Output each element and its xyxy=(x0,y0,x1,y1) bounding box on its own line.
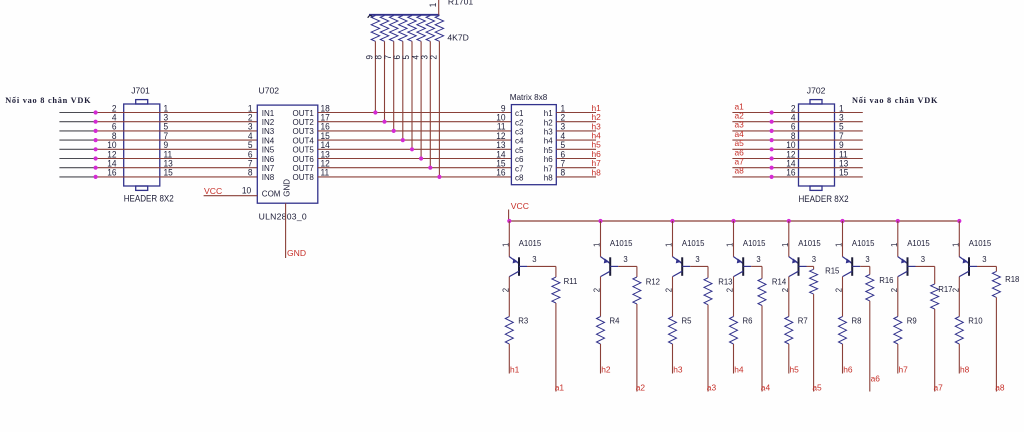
wire VCC rail xyxy=(509,220,960,222)
svg-text:h2: h2 xyxy=(601,364,611,374)
svg-text:3: 3 xyxy=(865,255,870,264)
svg-text:A1015: A1015 xyxy=(798,239,821,248)
svg-text:OUT2: OUT2 xyxy=(293,118,315,127)
transistor Q2 A1015 symbol xyxy=(601,257,619,277)
wire emitter Q5 xyxy=(788,221,790,257)
svg-text:1: 1 xyxy=(780,242,789,247)
resistor R5 xyxy=(669,317,677,345)
svg-text:1: 1 xyxy=(501,242,510,247)
wire U702 OUT1 to Matrix xyxy=(318,112,512,114)
svg-text:a8: a8 xyxy=(735,166,745,176)
wire base Q2 to R12 xyxy=(618,265,637,267)
svg-text:J702: J702 xyxy=(807,86,826,96)
resistor R14 xyxy=(758,279,766,306)
svg-text:1: 1 xyxy=(889,242,898,247)
resistor R7 xyxy=(785,317,793,345)
svg-text:8: 8 xyxy=(561,167,566,178)
svg-text:A1015: A1015 xyxy=(682,239,705,248)
wire R12 down to a2 xyxy=(636,304,638,392)
connector J702 body xyxy=(799,100,835,191)
svg-text:1: 1 xyxy=(427,2,438,7)
svg-text:4K7D: 4K7D xyxy=(447,32,469,42)
wire emitter Q8 xyxy=(958,221,960,257)
wire Matrix h6 out xyxy=(556,158,596,160)
junction dot R1701 pin 2 on OUT row xyxy=(437,175,441,179)
svg-text:c4: c4 xyxy=(515,137,524,146)
svg-text:R14: R14 xyxy=(772,277,787,286)
wire a5 to J702 pin10 xyxy=(732,148,862,150)
svg-text:R7: R7 xyxy=(798,316,808,325)
wire emitter Q1 xyxy=(508,221,510,257)
wire R14 down to a4 xyxy=(761,306,763,392)
wire base Q6 to R16 xyxy=(860,265,870,267)
svg-text:VCC: VCC xyxy=(204,186,222,196)
wire collector Q5 to R7 xyxy=(788,277,790,317)
svg-text:2: 2 xyxy=(428,55,439,60)
wire a8 to J702 pin16 xyxy=(732,176,862,178)
svg-text:J701: J701 xyxy=(131,86,150,96)
wire R13 down to a3 xyxy=(707,305,709,392)
wire J701 row 7 (input stub) xyxy=(59,167,95,169)
svg-text:OUT4: OUT4 xyxy=(293,136,315,145)
wire emitter Q4 xyxy=(733,221,735,257)
svg-text:c2: c2 xyxy=(515,118,524,127)
resistor R4 xyxy=(597,317,605,345)
junction dot rail cell 2 xyxy=(598,219,602,223)
wire a6 to J702 pin12 xyxy=(732,158,862,160)
junction dot rail cell 7 xyxy=(896,219,900,223)
svg-text:c8: c8 xyxy=(515,174,524,183)
svg-text:c7: c7 xyxy=(515,164,524,173)
svg-text:3: 3 xyxy=(812,255,817,264)
junction dot rail cell 5 xyxy=(787,219,791,223)
resistor R1701 element 7 xyxy=(390,16,398,42)
svg-text:OUT1: OUT1 xyxy=(293,109,315,118)
svg-text:8: 8 xyxy=(248,167,253,178)
resistor R1701 element 8 xyxy=(380,16,388,42)
wire J701 pin10 to U702 pin5 xyxy=(96,148,258,150)
svg-text:h1: h1 xyxy=(510,364,520,374)
wire Matrix h7 out xyxy=(556,167,596,169)
wire R1701 pin 4 down to OUT row 6 xyxy=(420,41,422,158)
wire J701 row 8 (input stub) xyxy=(59,176,95,178)
svg-text:16: 16 xyxy=(786,167,795,178)
junction dot J702 row 8 xyxy=(770,175,774,179)
power net VCC (transistor rail) xyxy=(508,210,510,222)
op-amp driver U702 body xyxy=(257,105,318,203)
wire J701 row 1 (input stub) xyxy=(59,112,95,114)
svg-text:R10: R10 xyxy=(968,316,983,325)
wire R8 down to h6 xyxy=(842,344,844,374)
wire Matrix h3 out xyxy=(556,130,596,132)
wire R16 down to a6 xyxy=(869,301,871,392)
resistor R1701 element 4 xyxy=(417,16,425,42)
transistor Q1 A1015 symbol xyxy=(509,257,527,277)
svg-text:R6: R6 xyxy=(743,316,753,325)
svg-text:Nối vao 8 chân VDK: Nối vao 8 chân VDK xyxy=(852,96,938,105)
svg-text:R9: R9 xyxy=(907,316,917,325)
svg-text:R11: R11 xyxy=(564,277,578,286)
junction dot R1701 pin 8 on OUT row xyxy=(382,120,386,124)
junction dot J702 row 4 xyxy=(770,138,774,142)
wire collector Q4 to R6 xyxy=(733,277,735,317)
transistor Q3 A1015 symbol xyxy=(673,257,691,277)
resistor R12 xyxy=(633,277,641,304)
svg-text:a4: a4 xyxy=(761,383,771,393)
wire base Q7 to R17 xyxy=(916,265,935,267)
wire base Q5 to R15 xyxy=(807,265,814,267)
wire Matrix h2 out xyxy=(556,121,596,123)
junction dot J701 row 5 xyxy=(94,147,98,151)
svg-text:1: 1 xyxy=(834,242,843,247)
transistor Q4 A1015 symbol xyxy=(734,257,752,277)
svg-text:R3: R3 xyxy=(518,316,528,325)
junction dot J702 row 6 xyxy=(770,156,774,160)
wire R11 down to a1 xyxy=(555,303,557,392)
wire J701 pin14 to U702 pin7 xyxy=(96,167,258,169)
wire collector Q1 to R3 xyxy=(508,277,510,317)
svg-text:h5: h5 xyxy=(790,364,800,374)
wire R9 down to h7 xyxy=(897,344,899,374)
resistor R13 xyxy=(704,278,712,305)
connector J701 body xyxy=(124,100,160,191)
svg-text:h3: h3 xyxy=(673,364,683,374)
wire J701 pin6 to U702 pin3 xyxy=(96,130,258,132)
svg-text:10: 10 xyxy=(242,185,251,196)
svg-text:h7: h7 xyxy=(899,364,909,374)
svg-text:R16: R16 xyxy=(879,276,894,285)
svg-text:IN5: IN5 xyxy=(262,146,275,155)
wire R7 down to h5 xyxy=(788,344,790,374)
wire U702 OUT7 to Matrix xyxy=(318,167,512,169)
svg-text:ULN2803_0: ULN2803_0 xyxy=(259,212,307,222)
svg-text:GND: GND xyxy=(287,248,306,258)
resistor R17 xyxy=(931,284,939,309)
svg-text:Nối vao 8 chân VDK: Nối vao 8 chân VDK xyxy=(5,96,91,105)
transistor Q5 A1015 symbol xyxy=(789,257,807,277)
junction dot J701 row 1 xyxy=(94,110,98,114)
wire R10 down to h8 xyxy=(958,344,960,374)
resistor R1701 element 6 xyxy=(399,16,407,42)
svg-text:3: 3 xyxy=(921,255,926,264)
wire J701 pin12 to U702 pin6 xyxy=(96,158,258,160)
svg-text:HEADER 8X2: HEADER 8X2 xyxy=(124,193,174,203)
wire J701 pin2 to U702 pin1 xyxy=(96,112,258,114)
svg-text:IN8: IN8 xyxy=(262,173,275,182)
wire emitter Q7 xyxy=(897,221,899,257)
resistor R1701 element 5 xyxy=(408,16,416,42)
wire base Q3 to R13 xyxy=(690,265,708,267)
wire J701 pin16 to U702 pin8 xyxy=(96,176,258,178)
wire Matrix h1 out xyxy=(556,112,596,114)
svg-text:IN7: IN7 xyxy=(262,164,275,173)
resistor pack R1701 common bar xyxy=(369,14,439,16)
svg-text:3: 3 xyxy=(695,255,700,264)
resistor R15 xyxy=(810,269,818,294)
resistor R18 xyxy=(992,271,1000,297)
svg-text:R5: R5 xyxy=(682,316,692,325)
wire base Q8 to R18 xyxy=(977,265,996,267)
resistor R6 xyxy=(730,317,738,345)
svg-text:3: 3 xyxy=(982,255,987,264)
svg-text:R18: R18 xyxy=(1005,275,1020,284)
wire emitter Q6 xyxy=(842,221,844,257)
svg-text:1: 1 xyxy=(951,242,960,247)
junction dot J702 row 2 xyxy=(770,120,774,124)
svg-text:11: 11 xyxy=(321,167,330,178)
LED matrix U-Matrix body xyxy=(511,105,556,185)
svg-text:h1: h1 xyxy=(544,109,553,118)
svg-text:15: 15 xyxy=(839,167,848,178)
junction dot R1701 pin 3 on OUT row xyxy=(428,166,432,170)
junction dot R1701 pin 6 on OUT row xyxy=(401,138,405,142)
svg-text:c3: c3 xyxy=(515,128,524,137)
svg-text:a5: a5 xyxy=(812,383,822,393)
svg-text:h6: h6 xyxy=(544,155,553,164)
wire collector Q8 to R10 xyxy=(958,277,960,317)
wire collector Q2 to R4 xyxy=(600,277,602,317)
svg-text:R15: R15 xyxy=(825,266,840,275)
svg-text:h4: h4 xyxy=(544,137,553,146)
junction dot rail cell 8 xyxy=(957,219,961,223)
svg-text:R8: R8 xyxy=(852,316,862,325)
svg-text:U702: U702 xyxy=(259,86,280,96)
svg-text:c6: c6 xyxy=(515,155,524,164)
wire R1701 pin 3 down to OUT row 7 xyxy=(429,41,431,167)
svg-text:h4: h4 xyxy=(734,364,744,374)
wire U702 OUT5 to Matrix xyxy=(318,148,512,150)
wire a1 to J702 pin2 xyxy=(732,112,862,114)
svg-text:a8: a8 xyxy=(995,383,1005,393)
transistor Q8 A1015 symbol xyxy=(959,257,977,277)
svg-text:A1015: A1015 xyxy=(610,239,633,248)
wire R6 down to h4 xyxy=(733,344,735,374)
resistor R8 xyxy=(839,317,847,345)
wire Matrix h8 out xyxy=(556,176,596,178)
wire U702 OUT3 to Matrix xyxy=(318,130,512,132)
svg-text:A1015: A1015 xyxy=(969,239,992,248)
svg-text:h8: h8 xyxy=(544,174,553,183)
wire R17 down to a7 xyxy=(934,309,936,392)
svg-text:COM: COM xyxy=(262,190,281,199)
wire J701 row 3 (input stub) xyxy=(59,130,95,132)
svg-text:15: 15 xyxy=(164,167,173,178)
wire J701 row 6 (input stub) xyxy=(59,158,95,160)
svg-text:GND: GND xyxy=(283,179,292,197)
svg-text:h7: h7 xyxy=(544,164,553,173)
svg-text:c5: c5 xyxy=(515,146,524,155)
svg-text:16: 16 xyxy=(496,167,505,178)
wire Matrix h5 out xyxy=(556,148,596,150)
svg-text:A1015: A1015 xyxy=(743,239,766,248)
resistor R1701 element 3 xyxy=(426,16,434,42)
wire R1701 pin 1 to top edge xyxy=(438,0,440,15)
svg-text:OUT3: OUT3 xyxy=(293,127,315,136)
svg-text:A1015: A1015 xyxy=(519,239,542,248)
junction dot rail cell 6 xyxy=(840,219,844,223)
wire emitter Q2 xyxy=(600,221,602,257)
svg-text:a1: a1 xyxy=(555,383,565,393)
svg-text:IN4: IN4 xyxy=(262,136,275,145)
wire J701 row 2 (input stub) xyxy=(59,121,95,123)
svg-text:IN3: IN3 xyxy=(262,127,275,136)
junction dot R1701 pin 4 on OUT row xyxy=(419,156,423,160)
wire collector Q7 to R9 xyxy=(897,277,899,317)
svg-text:1: 1 xyxy=(725,242,734,247)
junction dot R1701 pin 9 on OUT row xyxy=(373,110,377,114)
svg-text:3: 3 xyxy=(756,255,761,264)
wire R1701 pin 8 down to OUT row 2 xyxy=(384,41,386,121)
wire a7 to J702 pin14 xyxy=(732,167,862,169)
junction dot J701 row 7 xyxy=(94,166,98,170)
svg-text:OUT8: OUT8 xyxy=(293,173,315,182)
resistor R3 xyxy=(505,317,513,345)
svg-text:h8: h8 xyxy=(960,364,970,374)
wire a3 to J702 pin6 xyxy=(732,130,862,132)
wire R18 down to a8 xyxy=(995,297,997,391)
junction dot J701 row 2 xyxy=(94,120,98,124)
resistor R1701 element 9 xyxy=(371,16,379,42)
wire a4 to J702 pin8 xyxy=(732,139,862,141)
wire R1701 pin 2 down to OUT row 8 xyxy=(438,41,440,177)
junction dot J702 row 3 xyxy=(770,129,774,133)
wire base Q1 to R11 xyxy=(527,265,556,267)
wire R1701 pin 9 down to OUT row 1 xyxy=(374,41,376,112)
junction dot J701 row 6 xyxy=(94,156,98,160)
svg-text:1: 1 xyxy=(592,242,601,247)
wire R3 down to h1 xyxy=(508,344,510,374)
wire U702 OUT6 to Matrix xyxy=(318,158,512,160)
wire R15 down to a5 xyxy=(813,294,815,391)
wire a2 to J702 pin4 xyxy=(732,121,862,123)
wire Matrix h4 out xyxy=(556,139,596,141)
svg-text:3: 3 xyxy=(623,255,628,264)
svg-text:a2: a2 xyxy=(636,383,646,393)
wire U702 OUT8 to Matrix xyxy=(318,176,512,178)
svg-text:h5: h5 xyxy=(544,146,553,155)
svg-text:OUT6: OUT6 xyxy=(293,155,315,164)
wire U702 GND down xyxy=(285,203,287,258)
wire base Q4 to R14 xyxy=(751,265,762,267)
junction dot R1701 pin 7 on OUT row xyxy=(392,129,396,133)
wire J701 row 5 (input stub) xyxy=(59,148,95,150)
junction dot rail cell 3 xyxy=(670,219,674,223)
resistor R9 xyxy=(894,317,902,345)
svg-text:a7: a7 xyxy=(934,383,944,393)
svg-text:OUT5: OUT5 xyxy=(293,146,315,155)
svg-text:h8: h8 xyxy=(592,167,602,177)
transistor Q6 A1015 symbol xyxy=(843,257,861,277)
resistor R11 xyxy=(552,277,560,303)
svg-text:16: 16 xyxy=(107,167,116,178)
svg-text:IN1: IN1 xyxy=(262,109,275,118)
svg-text:R4: R4 xyxy=(610,316,620,325)
junction dot J702 row 5 xyxy=(770,147,774,151)
svg-text:R1701: R1701 xyxy=(448,0,474,7)
svg-text:VCC: VCC xyxy=(511,201,529,211)
junction dot J702 row 1 xyxy=(770,110,774,114)
svg-text:IN6: IN6 xyxy=(262,155,275,164)
svg-text:HEADER 8X2: HEADER 8X2 xyxy=(799,194,849,204)
junction dot J701 row 3 xyxy=(94,129,98,133)
svg-text:c1: c1 xyxy=(515,109,524,118)
resistor R16 xyxy=(866,275,874,301)
svg-text:R13: R13 xyxy=(718,277,733,286)
power net VCC wire to COM xyxy=(204,195,258,197)
svg-text:A1015: A1015 xyxy=(907,239,930,248)
junction dot rail cell 1 xyxy=(507,219,511,223)
wire U702 OUT2 to Matrix xyxy=(318,121,512,123)
junction dot J702 row 7 xyxy=(770,166,774,170)
wire R1701 pin 7 down to OUT row 3 xyxy=(393,41,395,131)
junction dot J701 row 4 xyxy=(94,138,98,142)
junction dot R1701 pin 5 on OUT row xyxy=(410,147,414,151)
svg-text:A1015: A1015 xyxy=(852,239,875,248)
svg-text:3: 3 xyxy=(532,255,537,264)
wire U702 OUT4 to Matrix xyxy=(318,139,512,141)
wire R1701 pin 5 down to OUT row 5 xyxy=(411,41,413,149)
svg-text:h2: h2 xyxy=(544,118,553,127)
svg-text:a3: a3 xyxy=(707,383,717,393)
svg-text:h3: h3 xyxy=(544,128,553,137)
svg-text:h6: h6 xyxy=(843,364,853,374)
wire J701 pin4 to U702 pin2 xyxy=(96,121,258,123)
junction dot J701 row 8 xyxy=(94,175,98,179)
pin 2 end mark on common bar xyxy=(368,16,373,18)
svg-text:a6: a6 xyxy=(871,374,881,384)
wire R5 down to h3 xyxy=(672,344,674,374)
wire R1701 pin 6 down to OUT row 4 xyxy=(402,41,404,140)
resistor R10 xyxy=(955,317,963,345)
wire J701 pin8 to U702 pin4 xyxy=(96,139,258,141)
svg-text:OUT7: OUT7 xyxy=(293,164,315,173)
resistor R1701 element 2 xyxy=(435,16,443,42)
svg-text:R12: R12 xyxy=(646,277,661,286)
svg-text:1: 1 xyxy=(664,242,673,247)
junction dot rail cell 4 xyxy=(731,219,735,223)
svg-text:Matrix 8x8: Matrix 8x8 xyxy=(510,92,548,102)
svg-text:IN2: IN2 xyxy=(262,118,275,127)
transistor Q7 A1015 symbol xyxy=(898,257,916,277)
wire emitter Q3 xyxy=(672,221,674,257)
wire collector Q6 to R8 xyxy=(842,277,844,317)
wire collector Q3 to R5 xyxy=(672,277,674,317)
wire R4 down to h2 xyxy=(600,344,602,374)
wire J701 row 4 (input stub) xyxy=(59,139,95,141)
